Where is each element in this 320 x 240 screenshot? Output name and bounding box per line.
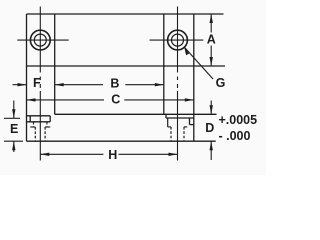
arrowhead B left [55, 83, 64, 86]
arrowhead A bottom [210, 57, 213, 66]
top view / side view shared left edge [26, 14, 28, 141]
dim C line [27, 99, 105, 101]
arrowhead H right [169, 153, 178, 156]
right end notch horizontal [190, 124, 194, 126]
dim F outside arrow line [13, 84, 27, 86]
left counterbore bottom line [27, 121, 51, 123]
leader line G [184, 47, 213, 79]
left counterbore wall left [29, 116, 31, 122]
right hidden hole step stubs [168, 126, 188, 128]
arrowhead G leader [184, 47, 189, 55]
left hidden clearance hole [34, 122, 47, 141]
svg-text:D: D [205, 121, 214, 135]
svg-text:C: C [111, 92, 120, 106]
top view rectangle bottom edge + A bottom extension [27, 65, 226, 67]
interior line right column [163, 14, 165, 114]
right hole horizontal centerline [150, 39, 204, 41]
left hole vertical centerline [39, 7, 41, 73]
through hole circle left [34, 34, 46, 46]
side view bar top edge + D top extension [55, 113, 217, 115]
arrowhead A top [210, 14, 213, 23]
counterbore circle left hole [30, 30, 50, 50]
svg-text:+.0005: +.0005 [219, 113, 258, 127]
dim D top arrow line [210, 101, 212, 115]
left counterbore wall right [49, 116, 51, 122]
svg-text:E: E [10, 122, 18, 136]
left hidden hole step stubs [30, 126, 50, 128]
dim E bottom extension [4, 140, 23, 142]
arrowhead D bottom [210, 141, 213, 150]
arrowhead F pointing right [18, 83, 27, 86]
dim H line [40, 153, 103, 155]
top view rectangle top edge + A top extension [27, 13, 224, 15]
dim B line [55, 84, 103, 86]
arrowhead B right [155, 83, 164, 86]
left hole horizontal centerline [17, 39, 68, 41]
arrowhead C left [27, 98, 36, 101]
top view / side view shared right edge [193, 14, 195, 141]
arrowhead E bottom [12, 141, 15, 150]
interior line left column [54, 14, 56, 114]
svg-text:B: B [110, 77, 119, 91]
side view bar bottom edge + D bottom extension [27, 140, 216, 142]
dim E bottom arrow line [13, 141, 15, 152]
svg-text:- .000: - .000 [219, 129, 251, 143]
arrowhead D top [210, 105, 213, 114]
svg-text:A: A [207, 32, 216, 46]
left counterbore seam line [27, 115, 51, 117]
arrowhead E top [12, 109, 15, 118]
right counterbore walls hidden [167, 118, 169, 127]
svg-text:G: G [216, 76, 226, 90]
dim E top arrow line [13, 101, 15, 119]
svg-text:H: H [108, 148, 117, 162]
arrowhead C right [185, 98, 194, 101]
right end slot wall [165, 114, 167, 118]
right end slot line [166, 117, 194, 119]
arrowhead H left [40, 153, 49, 156]
right end notch vertical [189, 118, 191, 125]
dim A line [210, 14, 212, 33]
svg-text:F: F [33, 76, 41, 90]
counterbore circle right hole [168, 30, 188, 50]
right hole vertical centerline [177, 7, 179, 73]
dim D bottom arrow line [210, 141, 212, 160]
dim E top extension [4, 117, 20, 119]
through hole circle right [172, 34, 184, 46]
